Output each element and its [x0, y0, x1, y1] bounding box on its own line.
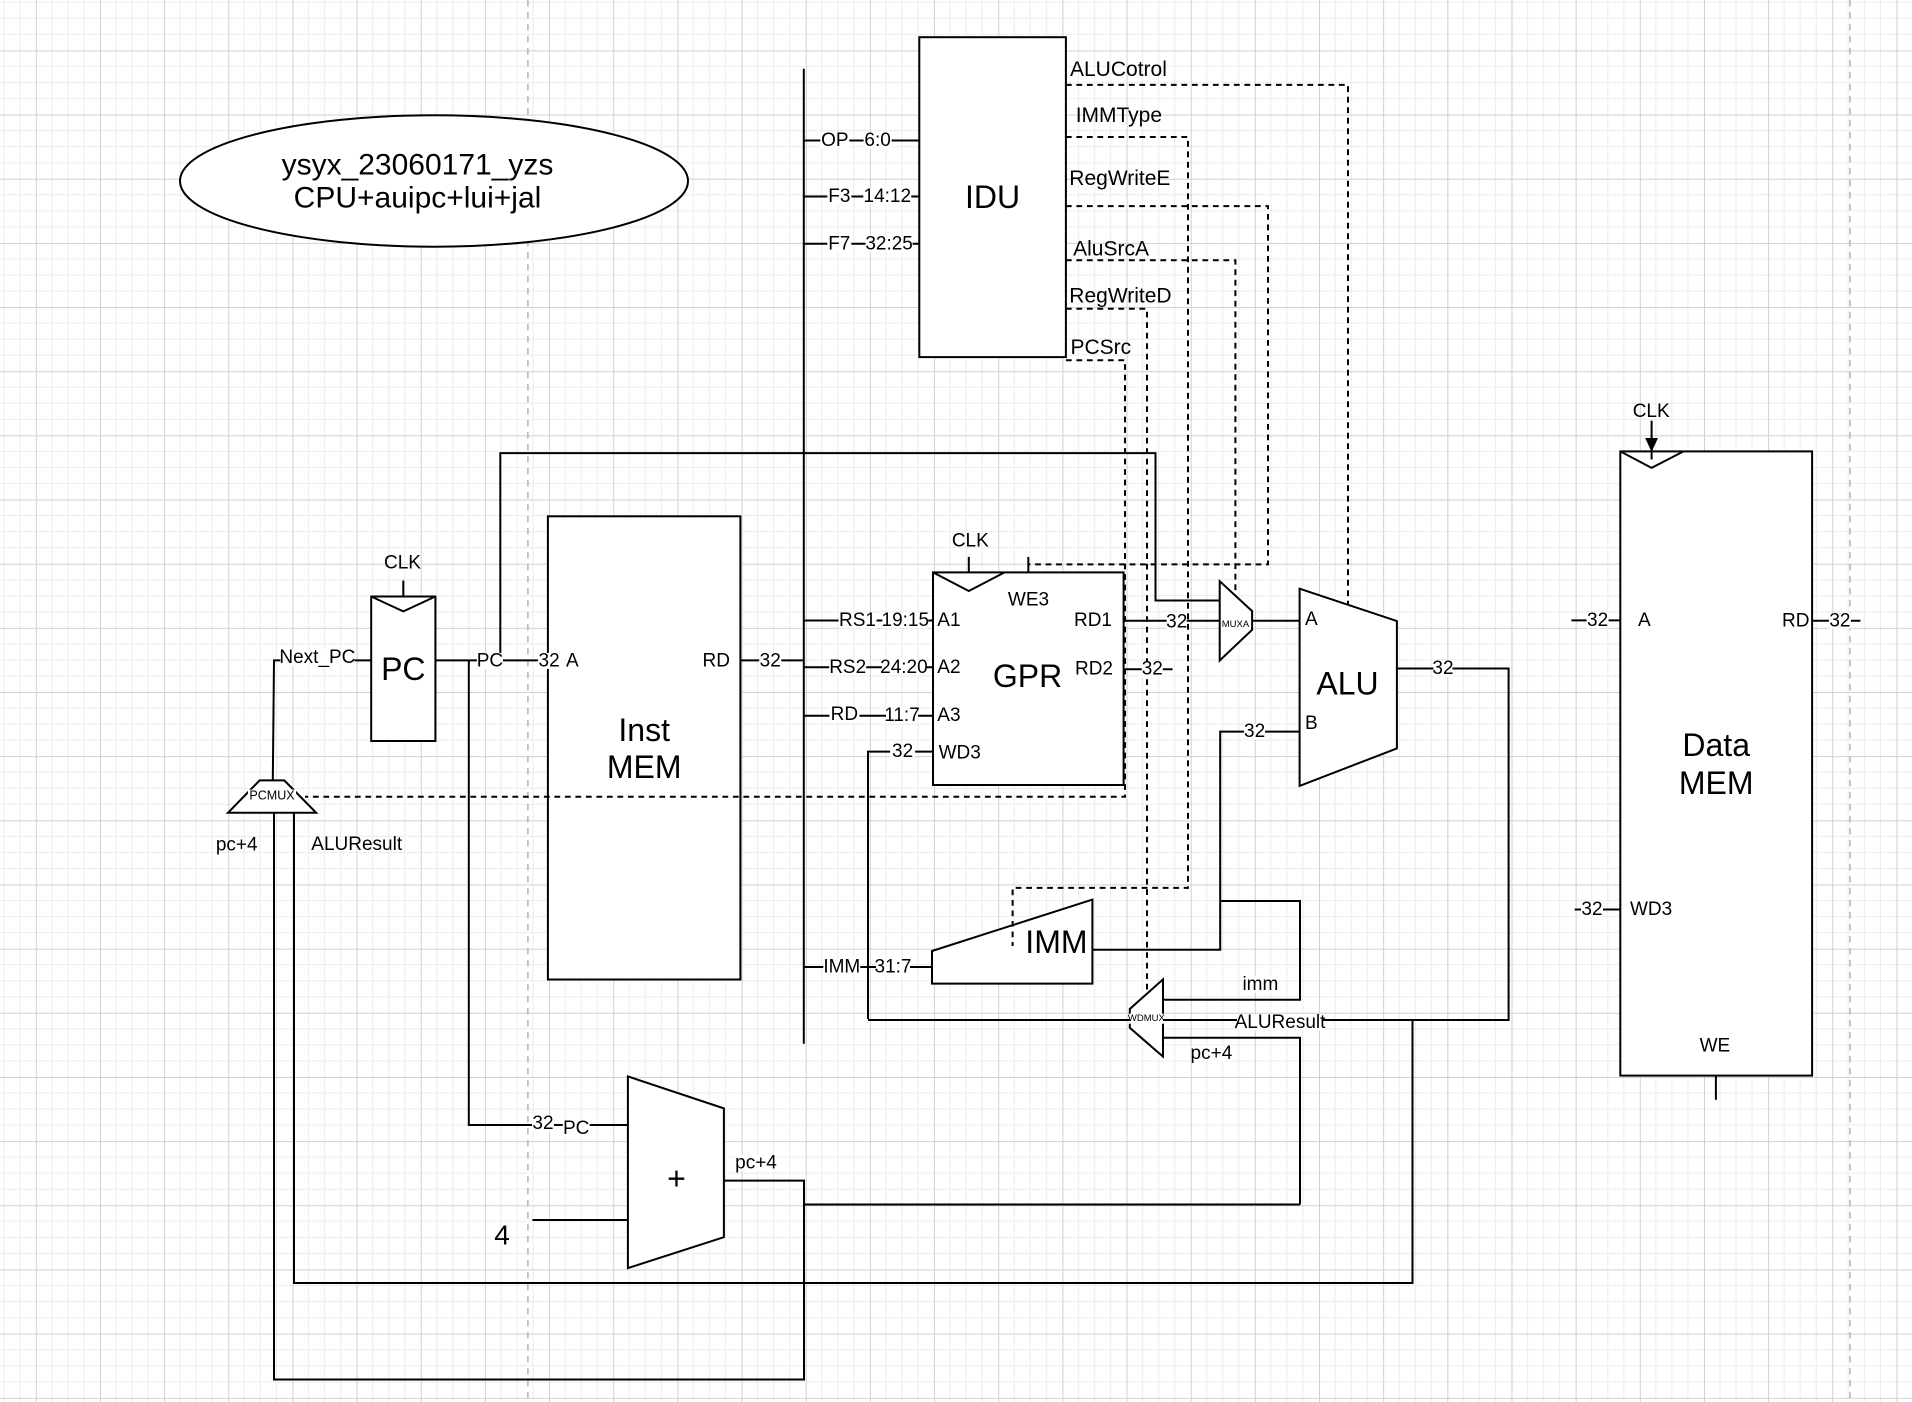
wire Next_PC from PCMUX to PC: [273, 660, 371, 780]
wire pc+4 into WDMUX: [1163, 1038, 1300, 1205]
svg-text:IDU: IDU: [965, 179, 1020, 215]
GPR WE3 tick: [1027, 557, 1029, 573]
label 32 ALU out: [1434, 661, 1453, 677]
wire WD3 into GPR: [868, 752, 933, 1019]
svg-text:imm: imm: [1242, 974, 1278, 995]
wire PC down to adder: [469, 660, 628, 1125]
svg-text:F7: F7: [828, 233, 850, 254]
wire ALUResult return loop to PCMUX: [294, 813, 1413, 1283]
svg-text:WD3: WD3: [939, 742, 981, 763]
IDU box U-IDU: [919, 37, 1066, 357]
wire instruction bus vertical: [803, 69, 805, 1044]
wire PC out to Inst MEM A: [435, 659, 548, 661]
adder PLUS: [628, 1076, 724, 1268]
svg-text:14:12: 14:12: [864, 186, 912, 207]
svg-text:WE: WE: [1700, 1035, 1731, 1056]
label F3 14:12: [827, 189, 851, 205]
svg-text:WD3: WD3: [1630, 899, 1672, 920]
svg-text:11:7: 11:7: [884, 705, 920, 726]
mux PCMUX: [228, 780, 316, 812]
svg-text:19:15: 19:15: [882, 610, 930, 631]
label 32 PC at adder in: [532, 1116, 554, 1132]
wire IMM out to ALU B: [1092, 732, 1299, 950]
Data MEM WE tick: [1715, 1076, 1717, 1100]
PC register U-PC: [371, 597, 435, 742]
svg-text:PC: PC: [563, 1118, 589, 1139]
GPR register file U-GPR: [933, 572, 1124, 785]
page boundary dashed line left: [527, 0, 529, 1402]
wire RS1 to GPR A1: [804, 620, 933, 622]
svg-text:A2: A2: [937, 657, 960, 678]
PC clock wedge: [371, 597, 435, 612]
Inst MEM box U-IMEM: [548, 516, 741, 979]
svg-text:32: 32: [532, 1113, 553, 1134]
svg-text:Next_PC: Next_PC: [279, 647, 355, 668]
wire F7 to IDU: [804, 243, 920, 245]
svg-text:6:0: 6:0: [864, 130, 890, 151]
label pc+4 at WDMUX: [1191, 1046, 1231, 1062]
wire ALU out down to WDMUX ALUResult: [1163, 669, 1509, 1021]
wire GPR RD2 stub: [1124, 668, 1173, 670]
wire pc+4 branch to WDMUX: [804, 1204, 1300, 1206]
svg-text:PC: PC: [381, 651, 425, 687]
wire RD to GPR A3: [804, 715, 933, 717]
svg-text:32: 32: [760, 650, 781, 671]
wire F3 to IDU: [804, 196, 920, 198]
svg-text:A: A: [1305, 609, 1318, 630]
svg-text:32: 32: [1829, 610, 1850, 631]
label ALUResult at WDMUX: [1237, 1015, 1323, 1031]
label Next_PC: [280, 650, 354, 666]
svg-text:ysyx_23060171_yzs: ysyx_23060171_yzs: [282, 148, 554, 181]
svg-text:RD: RD: [831, 704, 858, 725]
control AluSrcA dashed to MUXA: [1066, 260, 1236, 595]
svg-text:32:25: 32:25: [865, 233, 913, 254]
label imm: [1242, 977, 1278, 993]
wire OP to IDU: [804, 140, 920, 142]
svg-text:32: 32: [1587, 610, 1608, 631]
svg-text:RegWriteD: RegWriteD: [1069, 285, 1171, 308]
label 32 RD2 stub: [1142, 661, 1163, 677]
wire MUXA out to ALU A: [1252, 620, 1300, 622]
svg-text:+: +: [667, 1161, 686, 1197]
wire WDMUX out to GPR WD3: [868, 1019, 1130, 1021]
Data MEM CLK arrow: [1651, 421, 1653, 460]
svg-text:32: 32: [1432, 658, 1453, 679]
PC CLK tick: [402, 581, 404, 597]
svg-text:32: 32: [1142, 659, 1163, 680]
label pc+4 at adder out: [735, 1155, 778, 1171]
svg-text:PCSrc: PCSrc: [1071, 336, 1132, 359]
svg-text:WDMUX: WDMUX: [1128, 1013, 1166, 1024]
wire Inst MEM RD to bus: [740, 659, 803, 661]
label IMM 31:7: [823, 959, 860, 975]
svg-text:CLK: CLK: [1633, 401, 1670, 422]
svg-text:WE3: WE3: [1008, 590, 1049, 611]
svg-text:CPU+auipc+lui+jal: CPU+auipc+lui+jal: [294, 182, 542, 215]
wire imm branch to WDMUX: [1163, 901, 1300, 1000]
svg-text:pc+4: pc+4: [735, 1152, 777, 1173]
wire IMM bits to IMM extender: [804, 966, 932, 968]
svg-text:MEM: MEM: [607, 749, 682, 785]
svg-text:4: 4: [494, 1220, 510, 1251]
wire RS2 to GPR A2: [804, 666, 933, 668]
svg-text:ALUResult: ALUResult: [1235, 1012, 1327, 1033]
svg-text:A1: A1: [937, 610, 960, 631]
svg-text:A: A: [1638, 610, 1651, 631]
control RegWriteD dashed to WDMUX: [1066, 309, 1147, 994]
svg-text:Inst: Inst: [618, 712, 670, 748]
svg-text:RD: RD: [1782, 610, 1809, 631]
label 32 after Inst MEM RD: [759, 653, 781, 669]
svg-text:32: 32: [1581, 899, 1602, 920]
svg-text:ALU: ALU: [1316, 666, 1378, 702]
svg-text:32: 32: [892, 741, 913, 762]
svg-text:MUXA: MUXA: [1222, 619, 1250, 630]
mux MUXA: [1220, 581, 1252, 660]
wire Data MEM A stub: [1571, 619, 1620, 621]
label 32 at GPR WD3: [890, 744, 915, 760]
svg-text:RD: RD: [703, 650, 730, 671]
label RS1 19:15: [839, 613, 877, 629]
label RD 11:7: [829, 707, 859, 723]
mux WDMUX: [1130, 979, 1163, 1056]
svg-text:CLK: CLK: [952, 531, 989, 552]
IMM extender U-IMM: [932, 900, 1092, 984]
wire PC feedback up to MUXA: [500, 453, 1219, 660]
Data MEM box U-DMEM: [1620, 451, 1812, 1075]
svg-text:RS1: RS1: [839, 610, 876, 631]
svg-text:32: 32: [1166, 612, 1187, 633]
svg-text:F3: F3: [828, 186, 850, 207]
svg-text:Data: Data: [1682, 727, 1750, 763]
svg-text:A: A: [566, 650, 579, 671]
svg-text:A3: A3: [937, 705, 960, 726]
svg-text:CLK: CLK: [384, 553, 421, 574]
label 32 ALU B wire: [1244, 724, 1265, 740]
ALU trapezoid U-ALU: [1300, 589, 1397, 786]
svg-text:IMMType: IMMType: [1076, 104, 1162, 127]
label RS2 24:20: [829, 659, 866, 675]
svg-text:RD2: RD2: [1075, 659, 1113, 680]
wire constant 4 to adder: [532, 1219, 628, 1221]
svg-text:AluSrcA: AluSrcA: [1073, 238, 1149, 261]
page boundary dashed line right: [1849, 0, 1851, 1402]
svg-text:pc+4: pc+4: [216, 835, 258, 856]
svg-text:32: 32: [1244, 721, 1265, 742]
label 32 Data MEM A stub: [1587, 612, 1609, 628]
svg-text:GPR: GPR: [993, 658, 1062, 694]
GPR CLK tick: [968, 557, 970, 573]
GPR clock wedge: [933, 572, 1005, 591]
control ALUCotrol dashed to ALU: [1066, 85, 1348, 605]
wire adder out pc+4 loop to PCMUX: [274, 813, 804, 1380]
label 32 at Inst MEM A: [538, 653, 560, 669]
label 32 Data MEM RD stub: [1829, 613, 1851, 629]
svg-text:ALUResult: ALUResult: [311, 834, 403, 855]
svg-text:32: 32: [539, 650, 560, 671]
control IMMType dashed to IMM: [1013, 137, 1188, 946]
control PCSrc dashed to PCMUX: [305, 360, 1125, 797]
wire Data MEM WD3 stub: [1575, 909, 1621, 911]
svg-text:B: B: [1305, 713, 1318, 734]
Data MEM clock wedge: [1620, 451, 1683, 468]
label OP 6:0: [820, 133, 849, 149]
svg-text:IMM: IMM: [823, 957, 860, 978]
svg-text:RegWriteE: RegWriteE: [1069, 167, 1170, 190]
svg-text:IMM: IMM: [1025, 924, 1087, 960]
label F7 32:25: [827, 236, 851, 252]
svg-text:PC: PC: [477, 650, 503, 671]
label 32 RD1 wire: [1167, 614, 1187, 630]
svg-text:RD1: RD1: [1074, 610, 1112, 631]
svg-text:31:7: 31:7: [875, 957, 912, 978]
label PC on wire: [477, 653, 503, 669]
svg-text:PCMUX: PCMUX: [249, 789, 295, 803]
svg-text:RS2: RS2: [829, 657, 866, 678]
wire Data MEM RD stub: [1812, 620, 1860, 622]
svg-text:pc+4: pc+4: [1191, 1043, 1233, 1064]
wire GPR RD1 to MUXA: [1124, 620, 1220, 622]
svg-text:24:20: 24:20: [880, 657, 928, 678]
svg-text:ALUCotrol: ALUCotrol: [1070, 58, 1167, 81]
svg-text:OP: OP: [821, 130, 848, 151]
control RegWriteE dashed to GPR WE3: [1028, 206, 1268, 564]
label 32 Data MEM WD3 stub: [1581, 902, 1603, 918]
svg-text:MEM: MEM: [1679, 765, 1754, 801]
title ellipse ysyx_23060171_yzs: [180, 115, 688, 246]
